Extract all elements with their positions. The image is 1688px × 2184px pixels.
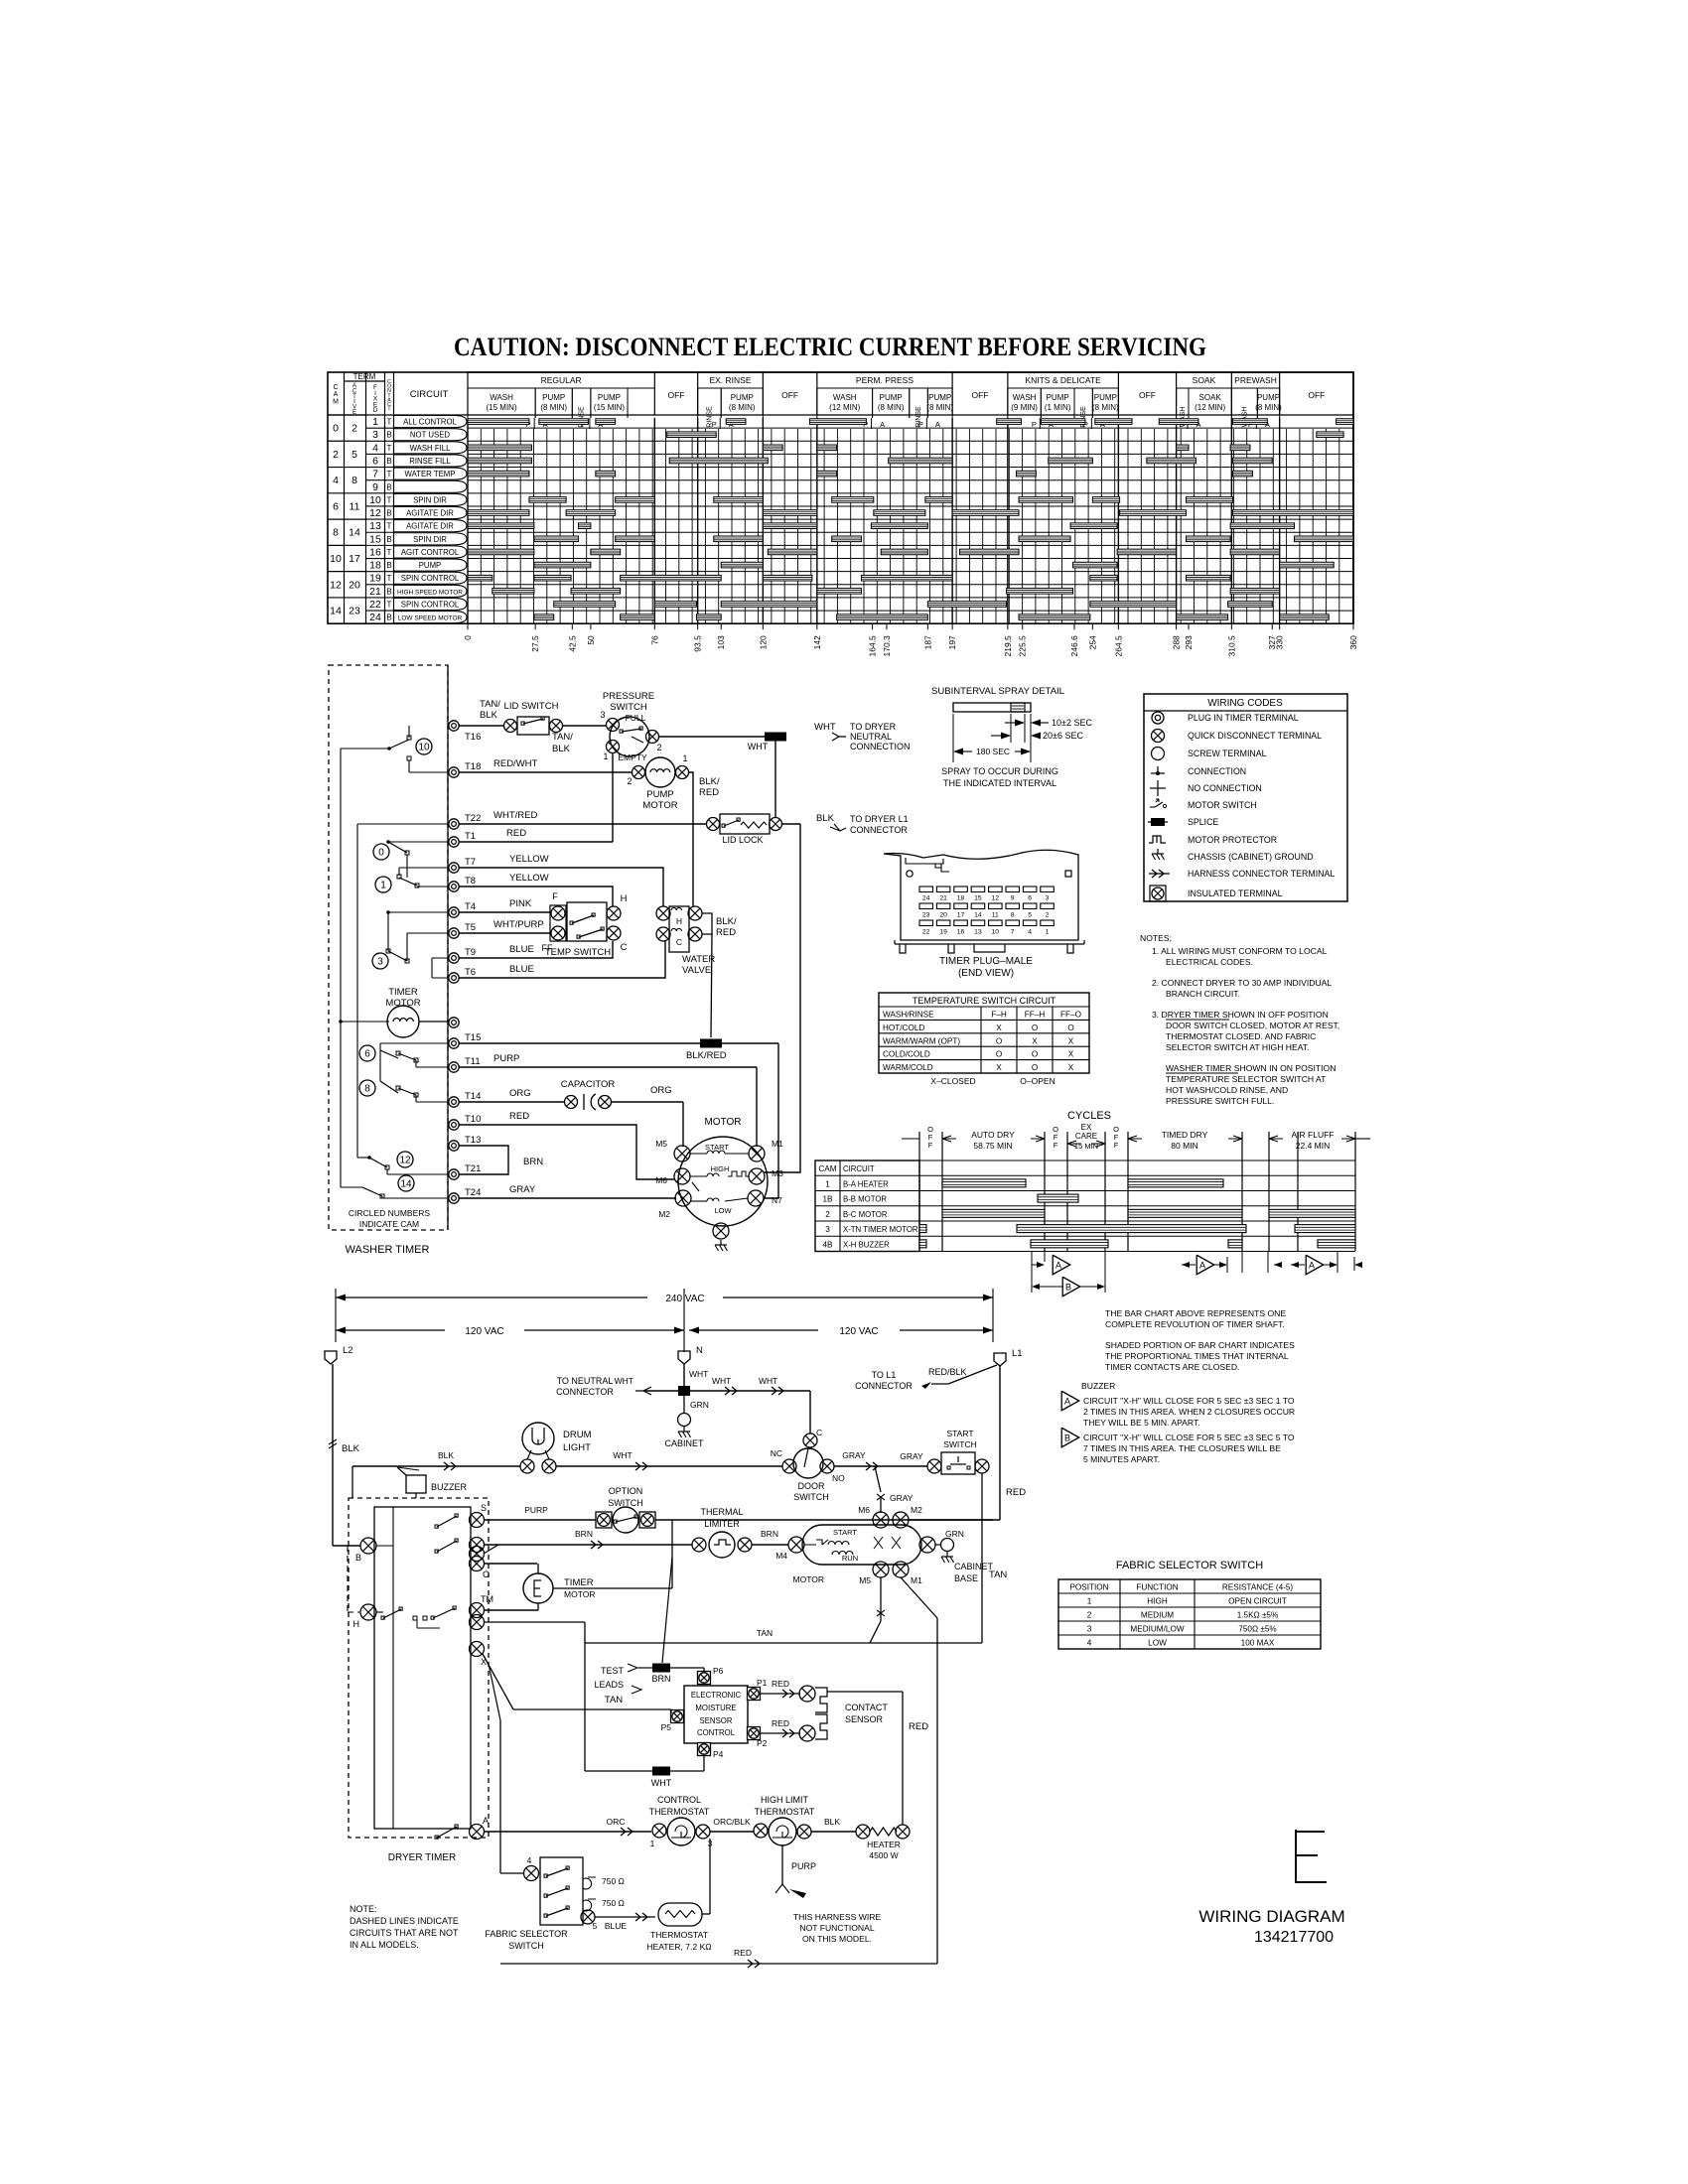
svg-text:CABINET: CABINET (664, 1438, 704, 1448)
wire X to TAN / fabric selector (483, 1654, 513, 1709)
washer motor (678, 1137, 768, 1226)
svg-text:2: 2 (333, 449, 339, 461)
buzzer area marker A2 (1182, 1264, 1196, 1266)
svg-text:6: 6 (364, 1049, 370, 1060)
svg-text:246.6: 246.6 (1069, 635, 1079, 657)
svg-text:76: 76 (649, 635, 659, 645)
svg-text:PERM. PRESS: PERM. PRESS (856, 375, 914, 385)
svg-text:O: O (1067, 1024, 1073, 1032)
svg-text:L1: L1 (1012, 1348, 1023, 1359)
svg-text:MOISTURE: MOISTURE (695, 1704, 736, 1712)
cam switch 8 (359, 1080, 375, 1096)
terminal N (678, 1351, 690, 1364)
dryer timer terminals (470, 1513, 485, 1528)
svg-text:12: 12 (399, 1156, 411, 1166)
svg-text:PURP: PURP (791, 1861, 816, 1871)
svg-text:T4: T4 (465, 901, 476, 912)
svg-text:3: 3 (600, 710, 605, 720)
svg-text:SHADED PORTION OF BAR CHART IN: SHADED PORTION OF BAR CHART INDICATES (1105, 1340, 1295, 1350)
svg-text:GRAY: GRAY (509, 1184, 536, 1195)
svg-text:BLK: BLK (816, 813, 835, 824)
lid switch (504, 720, 517, 733)
svg-text:N7: N7 (772, 1195, 782, 1205)
svg-text:T24: T24 (465, 1187, 481, 1198)
legend symbol mprot (1149, 836, 1166, 843)
svg-text:A: A (1309, 1261, 1315, 1271)
svg-text:HIGH LIMIT: HIGH LIMIT (761, 1795, 809, 1805)
svg-text:22: 22 (922, 929, 930, 936)
svg-text:WHT: WHT (814, 722, 836, 733)
svg-text:(8 MIN): (8 MIN) (878, 403, 905, 412)
svg-text:F: F (1054, 1141, 1058, 1150)
svg-text:ON THIS MODEL.: ON THIS MODEL. (802, 1934, 872, 1944)
svg-text:10: 10 (992, 929, 1000, 936)
svg-text:WASH: WASH (490, 393, 513, 402)
legend symbol plug (1152, 712, 1164, 724)
plug-in timer terminal T18 (449, 767, 459, 777)
svg-text:O: O (996, 1036, 1002, 1045)
svg-text:PRESSURE: PRESSURE (603, 691, 654, 702)
svg-text:T13: T13 (465, 1135, 481, 1146)
svg-text:EMPTY: EMPTY (618, 752, 647, 762)
wire dryer timer to thermal limiter BRN (484, 1544, 692, 1546)
svg-text:24: 24 (922, 895, 930, 902)
svg-text:DOOR: DOOR (798, 1481, 826, 1491)
svg-text:BRANCH CIRCUIT.: BRANCH CIRCUIT. (1166, 989, 1240, 999)
cam bus wires (340, 749, 342, 1187)
svg-text:PLUG IN TIMER TERMINAL: PLUG IN TIMER TERMINAL (1188, 713, 1299, 723)
svg-text:TIMED DRY: TIMED DRY (1162, 1130, 1208, 1140)
svg-text:INSULATED TERMINAL: INSULATED TERMINAL (1188, 888, 1283, 898)
svg-text:SENSOR: SENSOR (845, 1714, 884, 1724)
svg-text:T5: T5 (465, 922, 476, 933)
svg-text:OPTION: OPTION (609, 1486, 643, 1496)
svg-text:X: X (996, 1024, 1002, 1032)
svg-text:1. ALL WIRING MUST CONFORM TO: 1. ALL WIRING MUST CONFORM TO LOCAL (1152, 946, 1328, 956)
svg-text:240 VAC: 240 VAC (665, 1294, 704, 1304)
svg-text:FF–H: FF–H (1025, 1011, 1046, 1020)
svg-text:RED: RED (772, 1718, 789, 1728)
timer motor (washer) (387, 1006, 419, 1037)
svg-text:H: H (353, 1619, 360, 1629)
svg-text:RED/WHT: RED/WHT (493, 758, 538, 769)
svg-text:14: 14 (330, 606, 342, 617)
wire L1 down RED to motor M2 (999, 1366, 1001, 1520)
svg-text:YELLOW: YELLOW (509, 873, 549, 884)
svg-text:3: 3 (825, 1225, 830, 1234)
svg-text:GRN: GRN (690, 1400, 709, 1410)
svg-text:X: X (1068, 1036, 1074, 1045)
svg-text:20: 20 (939, 912, 947, 919)
svg-text:WASH: WASH (1013, 393, 1037, 402)
svg-text:C: C (333, 384, 338, 391)
wire T24 GRAY to motor M2 (459, 1197, 676, 1199)
svg-text:180 SEC: 180 SEC (976, 747, 1010, 756)
svg-text:120 VAC: 120 VAC (465, 1326, 503, 1337)
svg-text:13: 13 (369, 520, 381, 532)
svg-text:0: 0 (333, 423, 339, 435)
svg-text:SELECTOR SWITCH AT HIGH HEAT.: SELECTOR SWITCH AT HIGH HEAT. (1166, 1042, 1310, 1052)
wire lid switch to pressure switch (563, 725, 606, 727)
buzzer area marker A1 (1032, 1264, 1039, 1266)
svg-text:S: S (481, 1503, 487, 1513)
wire T18 to pump motor (459, 771, 633, 773)
svg-text:SPRAY TO OCCUR DURING: SPRAY TO OCCUR DURING (941, 766, 1058, 776)
svg-text:EX. RINSE: EX. RINSE (709, 375, 751, 385)
moisture sensor P6 (698, 1672, 711, 1685)
svg-text:T9: T9 (465, 947, 476, 958)
svg-text:1: 1 (1087, 1597, 1092, 1606)
wire terminal6 down (484, 1621, 585, 1623)
svg-text:MOTOR: MOTOR (564, 1589, 595, 1599)
svg-text:10: 10 (418, 743, 430, 753)
svg-text:NO CONNECTION: NO CONNECTION (1188, 783, 1262, 793)
svg-text:12: 12 (992, 895, 1000, 902)
svg-text:GRAY: GRAY (842, 1450, 866, 1460)
svg-text:22.4 MIN: 22.4 MIN (1296, 1141, 1331, 1151)
svg-text:ORG: ORG (650, 1085, 672, 1096)
svg-text:2: 2 (656, 743, 661, 752)
svg-text:T10: T10 (465, 1114, 481, 1125)
wire door switch NO to start switch GRAY (834, 1465, 927, 1467)
splice BRN test (652, 1664, 670, 1673)
svg-text:CONTACT: CONTACT (845, 1703, 888, 1712)
pressure switch (610, 717, 649, 756)
svg-text:CIRCUIT "X-H" WILL CLOSE FOR 5: CIRCUIT "X-H" WILL CLOSE FOR 5 SEC ±3 SE… (1083, 1396, 1295, 1406)
svg-text:THERMOSTAT CLOSED. AND FABRIC: THERMOSTAT CLOSED. AND FABRIC (1166, 1031, 1316, 1041)
svg-text:16: 16 (369, 546, 381, 558)
svg-text:TAN: TAN (605, 1695, 623, 1706)
svg-text:MEDIUM/LOW: MEDIUM/LOW (1130, 1625, 1184, 1634)
svg-text:2: 2 (352, 423, 357, 435)
wire T15 BLK/RED to motor M7 (459, 1042, 778, 1044)
svg-text:RED: RED (509, 1111, 529, 1122)
svg-text:M5: M5 (859, 1575, 871, 1585)
svg-text:B: B (1064, 1433, 1070, 1443)
dryer timer switch arms (437, 1516, 457, 1527)
svg-text:SPIN CONTROL: SPIN CONTROL (401, 600, 460, 609)
svg-text:CIRCUIT: CIRCUIT (843, 1164, 875, 1173)
svg-text:LOW: LOW (1148, 1639, 1167, 1648)
svg-text:M6: M6 (655, 1175, 667, 1185)
wire T4 pink to temp switch F (459, 911, 551, 913)
wire contact sensor RED down (827, 1691, 903, 1693)
svg-text:THERMOSTAT: THERMOSTAT (649, 1807, 710, 1817)
svg-text:RED: RED (909, 1721, 928, 1732)
svg-text:X: X (996, 1063, 1002, 1072)
svg-text:(8 MIN): (8 MIN) (1092, 403, 1119, 412)
svg-text:T21: T21 (465, 1163, 481, 1174)
svg-text:SPLICE: SPLICE (1188, 817, 1218, 827)
svg-text:(9 MIN): (9 MIN) (1011, 403, 1038, 412)
svg-text:T16: T16 (465, 732, 481, 743)
bottom RED wire (500, 1963, 937, 1965)
moisture sensor P5 (671, 1710, 684, 1723)
svg-text:PURP: PURP (524, 1505, 548, 1515)
svg-text:ELECTRICAL CODES.: ELECTRICAL CODES. (1166, 957, 1253, 967)
svg-text:254: 254 (1087, 635, 1097, 649)
svg-text:SWITCH: SWITCH (943, 1439, 977, 1449)
svg-text:27.5: 27.5 (530, 635, 540, 652)
svg-text:T11: T11 (465, 1056, 481, 1067)
svg-text:24: 24 (369, 612, 381, 623)
svg-text:C: C (816, 1428, 822, 1437)
svg-text:LIGHT: LIGHT (563, 1442, 591, 1453)
svg-text:T6: T6 (465, 967, 476, 978)
svg-text:BRN: BRN (651, 1674, 670, 1684)
svg-text:TIMER CONTACTS ARE CLOSED.: TIMER CONTACTS ARE CLOSED. (1105, 1362, 1239, 1372)
svg-text:3: 3 (1046, 895, 1050, 902)
svg-text:X: X (1068, 1050, 1074, 1059)
wire pump motor to water valve (689, 772, 693, 906)
svg-text:TAN/: TAN/ (480, 699, 500, 710)
plug-in timer terminal T10 (449, 1120, 459, 1130)
svg-text:WASH FILL: WASH FILL (410, 444, 452, 453)
svg-text:SPIN CONTROL: SPIN CONTROL (401, 574, 460, 583)
svg-text:2. CONNECT DRYER TO 30 AMP IN: 2. CONNECT DRYER TO 30 AMP INDIVIDUAL (1152, 978, 1332, 988)
svg-text:CHASSIS (CABINET) GROUND: CHASSIS (CABINET) GROUND (1188, 852, 1314, 862)
svg-text:TIMER: TIMER (564, 1577, 594, 1588)
svg-text:22: 22 (369, 599, 381, 611)
svg-text:SWITCH: SWITCH (508, 1941, 544, 1951)
svg-text:750Ω ±5%: 750Ω ±5% (1238, 1625, 1276, 1634)
svg-text:T1: T1 (465, 831, 476, 842)
drum light (522, 1423, 554, 1454)
wire S PURP to option switch (484, 1519, 596, 1521)
svg-text:TEMPERATURE SWITCH CIRCUIT: TEMPERATURE SWITCH CIRCUIT (913, 996, 1056, 1006)
svg-text:20±6 SEC: 20±6 SEC (1043, 731, 1083, 741)
cycles bar chart (815, 1110, 1370, 1297)
svg-text:21: 21 (369, 586, 381, 598)
splice WHT (765, 733, 786, 742)
svg-text:CARE: CARE (1075, 1132, 1097, 1141)
svg-text:GRN: GRN (945, 1529, 964, 1539)
buzzer area marker A3 (1291, 1264, 1305, 1266)
svg-text:TO DRYER: TO DRYER (850, 722, 897, 732)
washer timer sequence chart (328, 372, 1358, 656)
svg-text:TO L1: TO L1 (872, 1370, 897, 1380)
cam switch 0 (373, 844, 389, 860)
svg-text:O: O (1032, 1024, 1038, 1032)
svg-text:FULL: FULL (626, 713, 646, 723)
svg-text:4: 4 (1087, 1639, 1092, 1648)
svg-text:LEADS: LEADS (594, 1680, 624, 1690)
svg-text:MOTOR PROTECTOR: MOTOR PROTECTOR (1188, 835, 1277, 845)
revision letter E (1296, 1830, 1327, 1882)
svg-text:103: 103 (716, 635, 726, 649)
svg-text:14: 14 (349, 527, 360, 539)
plug-in timer terminal T7 (449, 863, 459, 873)
svg-text:8: 8 (352, 475, 357, 486)
wire A to control thermostat ORC (484, 1831, 651, 1833)
svg-text:POSITION: POSITION (1069, 1583, 1108, 1592)
svg-text:PRESSURE SWITCH FULL.: PRESSURE SWITCH FULL. (1166, 1096, 1274, 1106)
splice WHT bottom (652, 1767, 670, 1776)
moisture sensor P4 (698, 1743, 711, 1756)
svg-text:COLD/COLD: COLD/COLD (883, 1050, 930, 1059)
svg-text:288: 288 (1172, 635, 1182, 649)
svg-text:(8 MIN): (8 MIN) (1255, 403, 1282, 412)
temp switch (550, 905, 566, 941)
wire T16 to lid switch (459, 725, 504, 727)
svg-text:10: 10 (330, 553, 342, 565)
svg-text:SUBINTERVAL SPRAY DETAIL: SUBINTERVAL SPRAY DETAIL (931, 686, 1064, 697)
dryer timer enclosure (349, 1498, 489, 1838)
svg-text:NEUTRAL: NEUTRAL (850, 732, 892, 742)
svg-text:2: 2 (1046, 912, 1050, 919)
svg-text:A: A (1064, 1397, 1070, 1407)
svg-text:D: D (373, 407, 378, 414)
svg-text:O: O (1032, 1050, 1038, 1059)
wire high limit to heater BLK (811, 1831, 856, 1833)
svg-text:DASHED LINES INDICATE: DASHED LINES INDICATE (350, 1916, 459, 1926)
svg-text:RINSE FILL: RINSE FILL (409, 457, 451, 466)
svg-text:WARM/WARM (OPT): WARM/WARM (OPT) (883, 1036, 960, 1045)
svg-text:PUMP: PUMP (928, 393, 951, 402)
wire T8 yellow (459, 887, 613, 906)
svg-text:H: H (621, 893, 628, 904)
cabinet base ground (919, 1537, 935, 1553)
svg-text:HEATER, 7.2 KΩ: HEATER, 7.2 KΩ (646, 1942, 712, 1952)
svg-text:BASE: BASE (954, 1573, 978, 1583)
plug-in timer terminal T15 (449, 1038, 459, 1048)
svg-text:T: T (387, 444, 392, 453)
svg-text:PUMP: PUMP (542, 393, 565, 402)
svg-text:T: T (387, 548, 392, 557)
buzzer (406, 1475, 426, 1493)
svg-text:M1: M1 (772, 1139, 783, 1149)
wire control to high limit ORC/BLK (710, 1831, 754, 1833)
svg-text:TIMER PLUG–MALE: TIMER PLUG–MALE (939, 956, 1033, 967)
svg-text:LID SWITCH: LID SWITCH (504, 701, 559, 712)
svg-text:58.75 MIN: 58.75 MIN (973, 1141, 1012, 1151)
buzzer note A (1061, 1391, 1079, 1411)
svg-text:M6: M6 (858, 1505, 870, 1515)
svg-text:OFF: OFF (971, 390, 988, 400)
svg-text:18: 18 (957, 895, 965, 902)
svg-text:750 Ω: 750 Ω (602, 1876, 625, 1886)
plug-in timer terminal TM (449, 1018, 459, 1027)
svg-text:10: 10 (369, 494, 381, 506)
svg-text:CYCLES: CYCLES (1067, 1110, 1111, 1122)
svg-text:HARNESS CONNECTOR TERMINAL: HARNESS CONNECTOR TERMINAL (1188, 869, 1335, 879)
svg-text:RED: RED (1006, 1487, 1026, 1498)
legend symbol msw (1150, 806, 1155, 808)
plug-in timer terminal T8 (449, 882, 459, 891)
svg-text:0: 0 (378, 848, 384, 859)
wire option switch to motor row (655, 1519, 993, 1521)
svg-text:WATER: WATER (682, 954, 715, 965)
svg-text:750 Ω: 750 Ω (602, 1898, 625, 1908)
wire N down / neutral connector (683, 1364, 685, 1386)
svg-text:TEMP SWITCH: TEMP SWITCH (545, 947, 611, 958)
svg-text:O: O (1032, 1063, 1038, 1072)
svg-text:THE BAR CHART ABOVE REPRESENTS: THE BAR CHART ABOVE REPRESENTS ONE (1105, 1308, 1286, 1318)
svg-text:FABRIC SELECTOR: FABRIC SELECTOR (485, 1929, 568, 1939)
svg-text:TM: TM (481, 1594, 493, 1604)
dryer power dimension lines (336, 1289, 993, 1352)
svg-text:(12 MIN): (12 MIN) (1195, 403, 1225, 412)
svg-text:F: F (1114, 1141, 1119, 1150)
svg-text:293: 293 (1184, 635, 1194, 649)
svg-text:B: B (386, 535, 391, 544)
svg-text:AGITATE DIR: AGITATE DIR (406, 509, 454, 518)
wire T13-T21 BRN (459, 1146, 508, 1174)
plug-in timer terminal T21 (449, 1169, 459, 1179)
svg-text:PUMP: PUMP (731, 393, 754, 402)
svg-text:TO NEUTRAL: TO NEUTRAL (557, 1376, 614, 1386)
svg-text:DOOR SWITCH CLOSED, MOTOR AT R: DOOR SWITCH CLOSED, MOTOR AT REST, (1166, 1021, 1339, 1030)
svg-text:1: 1 (1046, 929, 1050, 936)
svg-text:PREWASH: PREWASH (1234, 375, 1277, 385)
svg-text:100 MAX: 100 MAX (1241, 1639, 1275, 1648)
svg-text:F–H: F–H (991, 1011, 1007, 1020)
svg-text:23: 23 (349, 606, 360, 617)
svg-text:B-B MOTOR: B-B MOTOR (843, 1195, 887, 1204)
wire T22 to lid lock (459, 823, 707, 825)
svg-text:(12 MIN): (12 MIN) (829, 403, 860, 412)
svg-text:50: 50 (586, 635, 596, 645)
svg-text:B: B (386, 509, 391, 518)
svg-text:WASH: WASH (833, 393, 857, 402)
svg-text:TIMER: TIMER (388, 987, 418, 998)
svg-text:5: 5 (593, 1921, 598, 1931)
svg-text:(8 MIN): (8 MIN) (926, 403, 953, 412)
svg-text:COMPLETE REVOLUTION OF TIMER S: COMPLETE REVOLUTION OF TIMER SHAFT. (1105, 1319, 1285, 1329)
svg-text:1: 1 (380, 881, 386, 891)
svg-text:RED: RED (699, 787, 719, 798)
svg-text:B: B (355, 1553, 361, 1563)
svg-text:PINK: PINK (509, 898, 532, 909)
svg-text:2 TIMES IN THIS AREA. WHEN 2: 2 TIMES IN THIS AREA. WHEN 2 CLOSURES OC… (1083, 1407, 1295, 1417)
svg-text:PUMP: PUMP (419, 561, 442, 570)
svg-text:CONNECTOR: CONNECTOR (850, 825, 908, 835)
svg-text:BLK: BLK (552, 744, 571, 754)
svg-text:TAN: TAN (757, 1628, 773, 1638)
svg-text:225.5: 225.5 (1018, 635, 1028, 657)
svg-text:ORC/BLK: ORC/BLK (713, 1817, 751, 1827)
svg-text:15: 15 (974, 895, 982, 902)
svg-text:1: 1 (372, 416, 378, 428)
svg-text:THERMOSTAT: THERMOSTAT (650, 1930, 709, 1940)
svg-text:134217700: 134217700 (1254, 1929, 1334, 1946)
svg-text:20: 20 (349, 579, 360, 591)
notes text block (1140, 933, 1339, 1106)
svg-text:BLK: BLK (480, 710, 498, 721)
pump motor (633, 766, 645, 779)
svg-text:T14: T14 (465, 1091, 481, 1102)
svg-text:P5: P5 (661, 1722, 672, 1732)
svg-text:5: 5 (1028, 912, 1032, 919)
cam switch 14 (398, 1175, 414, 1191)
wire water valve to BLK/RED splice (702, 913, 712, 934)
wire T9 blue to temp switch C (459, 941, 613, 958)
contact sensor (799, 1686, 815, 1702)
moisture sensor P1 (748, 1688, 761, 1701)
svg-text:P4: P4 (713, 1749, 724, 1759)
svg-text:9: 9 (1011, 895, 1015, 902)
svg-text:F: F (552, 891, 558, 901)
svg-text:CONNECTOR: CONNECTOR (556, 1387, 614, 1397)
svg-text:VALVE: VALVE (682, 965, 711, 976)
svg-text:TEST: TEST (601, 1666, 625, 1676)
svg-text:B: B (386, 482, 391, 491)
svg-text:12: 12 (369, 507, 381, 519)
svg-text:(8 MIN): (8 MIN) (729, 403, 756, 412)
svg-text:CIRCUIT "X-H" WILL CLOSE FOR 5: CIRCUIT "X-H" WILL CLOSE FOR 5 SEC ±3 SE… (1083, 1433, 1295, 1442)
svg-text:FABRIC SELECTOR SWITCH: FABRIC SELECTOR SWITCH (1116, 1560, 1263, 1571)
svg-text:T8: T8 (465, 876, 476, 887)
